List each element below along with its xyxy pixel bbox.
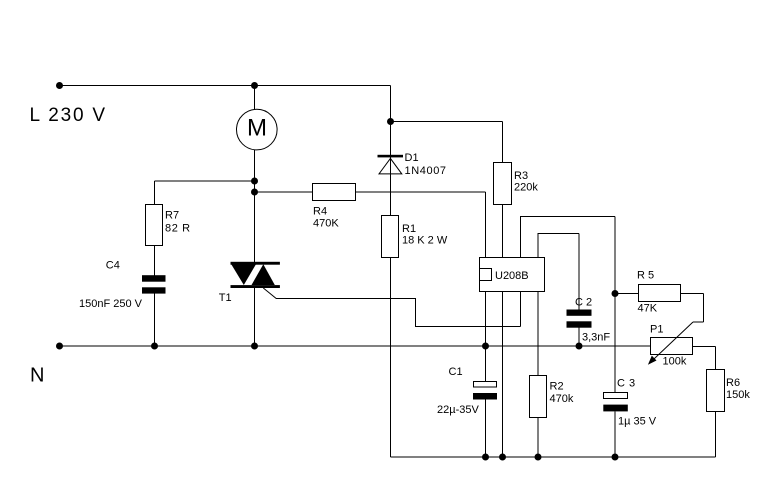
- wire triac gate to U208B: [276, 292, 520, 327]
- wire U208B pin4 to C2: [538, 234, 579, 310]
- svg-text:100k: 100k: [663, 356, 687, 368]
- wire U208B pin3 to R5 node: [521, 217, 616, 294]
- node motor-R4 dot: [251, 189, 258, 196]
- svg-text:1µ 35 V: 1µ 35 V: [618, 416, 657, 428]
- wire triac bottom to N rail: [254, 288, 256, 346]
- capacitor C3 (electrolytic): [603, 393, 628, 412]
- svg-text:N: N: [30, 365, 44, 387]
- wire node to R4 left: [255, 191, 313, 193]
- svg-text:C 3: C 3: [617, 378, 636, 390]
- triac T1: [231, 262, 280, 299]
- svg-text:3,3nF: 3,3nF: [582, 332, 610, 344]
- node N-C2 dot: [576, 343, 583, 350]
- node motor-R7 dot: [251, 178, 258, 185]
- svg-text:470k: 470k: [550, 393, 574, 405]
- wire U208B pin to R2 and R2 to rail: [537, 292, 539, 458]
- motor M1: [236, 109, 277, 150]
- wire P1 right to R6: [693, 347, 716, 370]
- wire node to R5 left: [615, 293, 639, 295]
- svg-text:1N4007: 1N4007: [405, 165, 447, 177]
- node rail-C1 dot: [482, 454, 489, 461]
- wire R7 top horizontal: [155, 180, 255, 182]
- svg-text:R3: R3: [514, 170, 528, 182]
- wire motor top drop: [254, 86, 256, 110]
- node rail-R2 dot: [535, 454, 542, 461]
- svg-text:47K: 47K: [638, 303, 658, 315]
- wire U208B pin2 down to bottom rail: [502, 292, 504, 458]
- diode D1: [378, 155, 404, 174]
- capacitor C2: [567, 310, 592, 328]
- svg-text:150nF 250 V: 150nF 250 V: [79, 298, 143, 310]
- wire R6 bottom to rail: [715, 412, 717, 458]
- wire R4 right to U208B pin: [356, 192, 486, 258]
- potentiometer P1 wiper arrow: [648, 322, 693, 365]
- resistor R3: [494, 163, 512, 205]
- wire U208B pin1 down through C1: [485, 292, 487, 458]
- node D1-R3 dot: [387, 118, 394, 125]
- node N-pin1 dot: [482, 343, 489, 350]
- resistor R2: [530, 376, 547, 418]
- wire C2 bottom stub: [578, 328, 580, 347]
- svg-text:R1: R1: [402, 223, 416, 235]
- wire R1 bottom to bottom rail: [390, 258, 392, 458]
- node L rail left dot: [56, 82, 63, 89]
- wire R7 to C4: [154, 246, 156, 276]
- U208B pin-1 notch box: [480, 269, 492, 281]
- wire R7 top vertical: [154, 181, 156, 205]
- svg-text:D1: D1: [405, 152, 419, 164]
- node rail-pin2 dot: [499, 454, 506, 461]
- svg-text:C4: C4: [106, 260, 120, 272]
- svg-text:C1: C1: [449, 366, 463, 378]
- svg-text:82 R: 82 R: [165, 223, 191, 235]
- svg-text:R6: R6: [726, 377, 740, 389]
- svg-text:470K: 470K: [313, 218, 339, 230]
- resistor R5: [639, 285, 681, 302]
- resistor R4: [313, 184, 356, 201]
- svg-text:T1: T1: [219, 292, 232, 304]
- svg-text:150k: 150k: [726, 389, 750, 401]
- svg-text:18 K 2 W: 18 K 2 W: [402, 235, 448, 247]
- node N-triac dot: [251, 343, 258, 350]
- wire top rail L: [60, 85, 391, 87]
- svg-text:C 2: C 2: [575, 297, 592, 309]
- wire node down through C3: [614, 294, 616, 458]
- svg-text:P1: P1: [650, 324, 663, 336]
- node N-C4 dot: [151, 343, 158, 350]
- svg-text:R7: R7: [165, 210, 179, 222]
- wire R5 right to wiper: [681, 294, 704, 323]
- wire R3 bottom to U208B pin: [502, 205, 504, 258]
- capacitor C1 (electrolytic): [473, 382, 497, 400]
- svg-text:R4: R4: [313, 206, 327, 218]
- resistor R7: [146, 205, 163, 246]
- wire N rail: [60, 345, 651, 347]
- node rail-C3 dot: [612, 454, 619, 461]
- svg-text:U208B: U208B: [495, 270, 529, 282]
- node R5 junction dot: [612, 290, 619, 297]
- capacitor C4: [142, 275, 166, 293]
- op-amp U1 IC U208B body: [480, 258, 545, 292]
- resistor R6: [707, 370, 725, 412]
- node N rail left dot: [56, 343, 63, 350]
- svg-text:22µ-35V: 22µ-35V: [437, 404, 479, 416]
- wire C4 to N rail: [154, 294, 156, 347]
- potentiometer P1 body: [651, 338, 693, 355]
- svg-text:M: M: [247, 115, 267, 142]
- node L rail motor dot: [251, 82, 258, 89]
- svg-text:220k: 220k: [514, 182, 538, 194]
- svg-text:L 230 V: L 230 V: [30, 105, 107, 126]
- svg-text:R 5: R 5: [637, 270, 654, 282]
- wire bottom rail: [391, 456, 716, 458]
- resistor R1: [382, 216, 399, 258]
- wire D1 node to R3 top: [391, 122, 503, 163]
- svg-text:R2: R2: [550, 381, 564, 393]
- wire motor bottom to triac: [254, 150, 256, 263]
- wire top rail corner down to D1: [390, 86, 392, 216]
